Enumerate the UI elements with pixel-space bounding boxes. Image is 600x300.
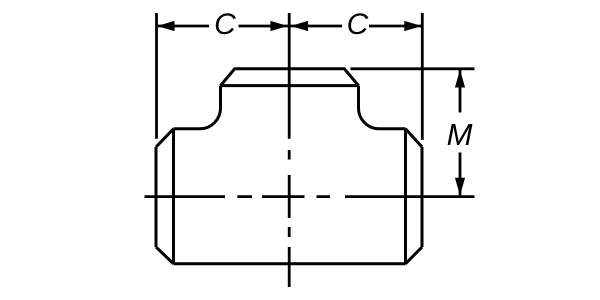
white gap behind M label — [448, 113, 472, 153]
tee branch top edge with end chamfers — [221, 69, 359, 86]
white gap behind right C label — [342, 18, 369, 34]
svg-text:C: C — [347, 8, 369, 41]
tee branch left side with fillet into run top-left edge — [174, 86, 221, 129]
run right end bottom chamfer — [406, 247, 423, 264]
left extension line for C — [155, 13, 158, 139]
arrowhead left C pointing left — [157, 21, 175, 31]
M top extension line — [351, 67, 475, 70]
run left end face line — [155, 147, 158, 247]
run right end top chamfer — [406, 129, 423, 147]
arrowhead left C pointing right at centerline — [270, 21, 288, 31]
M dimension line — [459, 70, 462, 196]
arrowhead right C pointing right — [404, 21, 422, 31]
run right end face line — [421, 147, 424, 247]
white gap behind left C label — [209, 18, 239, 34]
run bottom edge — [174, 262, 406, 265]
run left bevel shoulder line — [172, 129, 175, 264]
tee branch right side with fillet into run top-right edge — [358, 86, 405, 129]
arrowhead M pointing up — [455, 70, 465, 88]
arrowhead M pointing down — [455, 178, 465, 196]
run left end bottom chamfer — [156, 247, 174, 264]
arrowhead right C pointing left at centerline — [291, 21, 309, 31]
tee branch bevel shoulder line — [221, 84, 359, 87]
run right bevel shoulder line — [404, 129, 407, 264]
horizontal centerline (dashed) — [145, 195, 475, 198]
vertical centerline (dashed below dimension region) — [288, 13, 291, 287]
C dimension line — [157, 25, 422, 28]
run left end top chamfer — [156, 129, 174, 147]
right extension line for C — [421, 13, 424, 140]
svg-text:M: M — [447, 117, 473, 152]
svg-text:C: C — [214, 8, 236, 41]
